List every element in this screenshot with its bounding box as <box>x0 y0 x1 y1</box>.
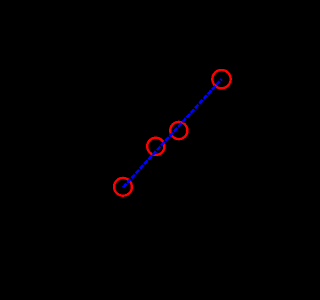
dashed interaction line O1...O4 <box>123 79 222 187</box>
atom O3 circle <box>170 122 187 139</box>
atom O1 circle <box>114 178 132 196</box>
atom O2 circle <box>147 138 164 155</box>
atom O4 circle <box>212 70 230 88</box>
